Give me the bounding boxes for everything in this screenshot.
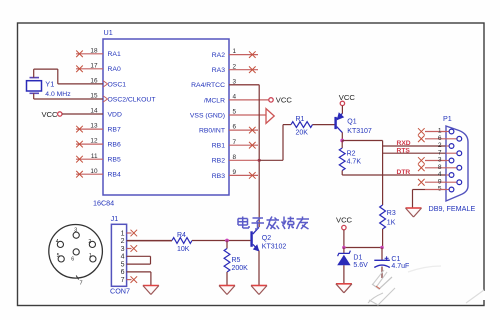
svg-text:RB3: RB3 bbox=[212, 173, 225, 180]
U1 pin 8 RB2 bbox=[212, 154, 259, 165]
svg-text:6: 6 bbox=[71, 256, 74, 262]
P1 part label DB9 FEMALE bbox=[429, 204, 476, 213]
junction D1 node bbox=[342, 246, 346, 250]
svg-text:18: 18 bbox=[90, 47, 98, 54]
junction C1 node bbox=[380, 246, 384, 250]
J1 pin 4 bbox=[121, 254, 125, 261]
connector P1 DB9 body bbox=[446, 126, 468, 201]
Y1 value 4.0 MHz bbox=[45, 91, 71, 98]
ground under D1 bbox=[336, 284, 352, 293]
D1 reference label bbox=[353, 255, 362, 262]
svg-text:17: 17 bbox=[90, 62, 98, 69]
svg-text:10K: 10K bbox=[177, 246, 190, 253]
svg-text:RB7: RB7 bbox=[108, 127, 121, 134]
DIN pin 6 bbox=[71, 249, 79, 263]
P1 pin 9 bbox=[418, 178, 462, 185]
svg-text:7: 7 bbox=[121, 277, 125, 284]
P1 pin 2 bbox=[438, 142, 454, 149]
svg-text:U1: U1 bbox=[104, 28, 113, 37]
resistor R2 bbox=[339, 141, 345, 176]
svg-text:1: 1 bbox=[438, 128, 442, 135]
svg-text:11: 11 bbox=[91, 153, 98, 160]
wire VCC to VDD pin 14 bbox=[62, 113, 103, 115]
P1 reference label bbox=[443, 114, 452, 123]
svg-text:16C84: 16C84 bbox=[93, 199, 114, 208]
svg-text:3: 3 bbox=[438, 157, 442, 164]
svg-text:CON7: CON7 bbox=[110, 287, 130, 296]
R4 value 10K bbox=[177, 246, 190, 253]
svg-text:RA4/RTCC: RA4/RTCC bbox=[191, 82, 225, 89]
resistor R3 bbox=[380, 205, 386, 248]
DIN pin 2 bbox=[88, 239, 95, 248]
R3 value 1K bbox=[387, 220, 396, 227]
junction R5 node bbox=[225, 239, 229, 243]
U1 pin 13 RB7 bbox=[76, 123, 121, 134]
R1 reference label bbox=[296, 116, 305, 123]
U1 pin 1 RA2 bbox=[212, 48, 258, 59]
diode D1 zener bbox=[337, 248, 350, 284]
svg-text:R3: R3 bbox=[387, 210, 396, 217]
wire Q2 emitter to ground bbox=[258, 251, 260, 285]
D1 value 5.6V bbox=[353, 262, 368, 269]
Q1 part KT3107 bbox=[347, 128, 372, 135]
svg-text:3: 3 bbox=[121, 246, 125, 253]
wire VCC to Q1 emitter bbox=[341, 106, 343, 114]
R2 reference label bbox=[347, 150, 356, 157]
svg-text:8: 8 bbox=[233, 154, 237, 161]
pen scribble mark bbox=[368, 266, 486, 305]
J1 pin 3 bbox=[121, 245, 138, 253]
svg-text:VCC: VCC bbox=[336, 215, 353, 224]
svg-text:RTS: RTS bbox=[397, 147, 411, 154]
svg-text:4: 4 bbox=[438, 171, 442, 178]
svg-text:RA2: RA2 bbox=[212, 52, 225, 59]
svg-text:VDD: VDD bbox=[108, 111, 122, 118]
svg-text:1: 1 bbox=[233, 48, 237, 55]
svg-text:2: 2 bbox=[438, 142, 442, 149]
DIN pin 5 bbox=[57, 253, 65, 262]
svg-text:7: 7 bbox=[233, 139, 237, 146]
svg-text:VCC: VCC bbox=[41, 110, 58, 119]
svg-text:4.0 MHz: 4.0 MHz bbox=[45, 91, 71, 98]
J1 reference label bbox=[111, 214, 119, 223]
svg-text:10: 10 bbox=[90, 168, 98, 175]
svg-text:12: 12 bbox=[90, 138, 98, 145]
svg-text:RB6: RB6 bbox=[108, 142, 121, 149]
svg-text:2: 2 bbox=[88, 239, 91, 245]
ground under DB9 pin 5 bbox=[406, 208, 422, 217]
U1 pin 17 RA0 bbox=[76, 62, 121, 73]
P1 pin 7 bbox=[438, 149, 462, 156]
connector J1 body bbox=[111, 224, 126, 286]
svg-text:RA3: RA3 bbox=[212, 67, 225, 74]
junction RB2 node bbox=[258, 159, 261, 162]
svg-text:OSC1: OSC1 bbox=[108, 81, 127, 88]
svg-text:RB0/INT: RB0/INT bbox=[199, 128, 225, 135]
svg-text:8: 8 bbox=[438, 164, 442, 171]
svg-text:P1: P1 bbox=[443, 114, 452, 123]
U1 reference label bbox=[104, 28, 113, 37]
svg-text:4: 4 bbox=[121, 254, 125, 261]
wire Y1 bottom to OSC2 bbox=[34, 93, 103, 99]
svg-text:D1: D1 bbox=[353, 255, 362, 262]
wire Q1 collector to node bbox=[341, 132, 343, 140]
DIN pin 1 bbox=[89, 253, 96, 262]
power port VCC at /MCLR bbox=[269, 96, 293, 105]
wire node RA4-RB2 vertical bus bbox=[229, 85, 259, 227]
R5 reference label bbox=[232, 257, 241, 264]
svg-text:9: 9 bbox=[233, 169, 237, 176]
svg-text:7: 7 bbox=[438, 149, 442, 156]
svg-text:9: 9 bbox=[438, 178, 442, 185]
J1 pin 6 bbox=[121, 269, 125, 276]
svg-text:4.7K: 4.7K bbox=[347, 159, 362, 166]
svg-text:R5: R5 bbox=[232, 257, 241, 264]
power port VCC at D1 bbox=[336, 215, 353, 229]
svg-text:1K: 1K bbox=[387, 220, 396, 227]
P1 pin 6 bbox=[418, 135, 462, 142]
resistor R1 bbox=[283, 122, 335, 128]
watermark text bbox=[238, 217, 309, 230]
svg-text:6: 6 bbox=[233, 124, 237, 131]
R5 value 200K bbox=[232, 265, 249, 272]
Q1 reference label bbox=[347, 119, 356, 126]
svg-text:6: 6 bbox=[438, 135, 442, 142]
svg-text:4.7uF: 4.7uF bbox=[391, 263, 409, 270]
U1 pin 10 RB4 bbox=[76, 168, 121, 179]
svg-text:R4: R4 bbox=[177, 232, 186, 239]
P1 pin 4 bbox=[438, 171, 454, 178]
op IC U1 16C84 body bbox=[103, 39, 229, 195]
U1 pin 18 RA1 bbox=[76, 47, 121, 58]
Q2 part KT3102 bbox=[262, 244, 287, 251]
C1 reference label bbox=[391, 256, 400, 263]
net label DTR bbox=[397, 169, 411, 176]
wire RXD to DB9 pin 2 bbox=[383, 145, 446, 147]
svg-text:/MCLR: /MCLR bbox=[204, 97, 225, 104]
junction Q1 collector node bbox=[340, 139, 344, 143]
transistor Q2 body bbox=[250, 227, 259, 251]
wire J1 pin 2 to R4 bbox=[127, 240, 172, 242]
svg-text:J1: J1 bbox=[111, 214, 119, 223]
svg-text:4: 4 bbox=[233, 94, 237, 101]
svg-text:RB2: RB2 bbox=[212, 158, 225, 165]
DIN pin 4 bbox=[56, 239, 64, 248]
J1 pin 5 bbox=[121, 262, 125, 269]
Y1 reference label bbox=[45, 80, 54, 89]
wire VCC to D1 node bbox=[344, 230, 383, 248]
U1 pin 7 RB1 bbox=[212, 139, 258, 150]
P1 pin 1 bbox=[418, 128, 454, 135]
power port arrow at VSS bbox=[266, 109, 274, 124]
svg-text:RB5: RB5 bbox=[108, 157, 121, 164]
svg-text:Q2: Q2 bbox=[262, 235, 271, 242]
svg-text:RB1: RB1 bbox=[212, 143, 225, 150]
svg-text:1: 1 bbox=[121, 230, 125, 237]
svg-text:VCC: VCC bbox=[276, 96, 293, 105]
J1 part CON7 bbox=[110, 287, 130, 296]
U1 pin 4 /MCLR bbox=[204, 94, 269, 105]
svg-text:4: 4 bbox=[56, 239, 59, 245]
svg-text:6: 6 bbox=[121, 269, 125, 276]
svg-text:5: 5 bbox=[57, 253, 60, 259]
svg-text:RXD: RXD bbox=[397, 140, 411, 147]
J1 pin 7 bbox=[121, 276, 138, 284]
DIN pin 3 bbox=[73, 228, 79, 239]
svg-text:RA1: RA1 bbox=[108, 51, 121, 58]
wire Q1 node to RXD/RTS bus bbox=[342, 141, 382, 206]
svg-text:3: 3 bbox=[74, 228, 77, 234]
DIN pin 7 label bbox=[76, 276, 82, 287]
wire DB9 pin 5 to ground bbox=[413, 190, 447, 208]
svg-text:DB9, FEMALE: DB9, FEMALE bbox=[429, 204, 476, 213]
ground under R5 bbox=[219, 286, 235, 295]
P1 pin 8 bbox=[418, 164, 462, 171]
P1 pin 5 bbox=[438, 186, 454, 193]
net label RTS bbox=[397, 147, 411, 154]
P1 pin 3 bbox=[418, 157, 454, 164]
svg-text:KT3102: KT3102 bbox=[262, 244, 287, 251]
resistor R4 bbox=[127, 238, 251, 244]
ground under Q2 bbox=[251, 286, 267, 295]
net label RXD bbox=[397, 140, 411, 147]
R2 value 4.7K bbox=[347, 159, 362, 166]
U1 pin 3 RA4/RTCC bbox=[191, 78, 259, 89]
svg-text:2: 2 bbox=[121, 238, 125, 245]
svg-text:13: 13 bbox=[90, 123, 98, 130]
power port VCC at VDD bbox=[41, 110, 62, 119]
svg-text:KT3107: KT3107 bbox=[347, 128, 372, 135]
svg-text:R2: R2 bbox=[347, 150, 356, 157]
U1 pin 12 RB6 bbox=[76, 138, 121, 149]
U1 pin 2 RA3 bbox=[212, 63, 258, 74]
U1 part value 16C84 bbox=[93, 199, 114, 208]
svg-text:RB4: RB4 bbox=[108, 172, 121, 179]
C1 value 4.7uF bbox=[391, 263, 409, 270]
U1 pin 6 RB0/INT bbox=[199, 124, 258, 135]
svg-text:200K: 200K bbox=[232, 265, 249, 272]
DIN connector face outline bbox=[49, 225, 103, 279]
svg-text:20K: 20K bbox=[296, 130, 309, 137]
svg-text:Y1: Y1 bbox=[45, 80, 54, 89]
U1 pin 11 RB5 bbox=[76, 153, 121, 164]
wire RTS to DB9 pin 7 bbox=[383, 152, 446, 154]
R1 value 20K bbox=[296, 130, 309, 137]
svg-text:RA0: RA0 bbox=[108, 66, 121, 73]
J1 pin 2 bbox=[121, 238, 125, 245]
transistor Q1 body bbox=[334, 112, 344, 132]
svg-text:VSS (GND): VSS (GND) bbox=[190, 112, 225, 119]
U1 pin 14 VDD bbox=[90, 108, 122, 119]
svg-text:OSC2/CLKOUT: OSC2/CLKOUT bbox=[108, 96, 156, 103]
power port VCC above Q1 bbox=[339, 93, 356, 105]
R3 reference label bbox=[387, 210, 396, 217]
U1 pin 9 RB3 bbox=[212, 169, 258, 180]
U1 pin 15 OSC2/CLKOUT bbox=[90, 93, 155, 104]
wire RB2 branch to R1 bbox=[259, 125, 283, 161]
resistor R5 bbox=[224, 241, 230, 286]
J1 pin 1 bbox=[121, 230, 138, 238]
svg-text:7: 7 bbox=[80, 281, 83, 287]
svg-text:5: 5 bbox=[233, 109, 237, 116]
capacitor C1 bbox=[374, 248, 390, 279]
ground under J1 pin 6 bbox=[143, 286, 159, 295]
svg-text:5.6V: 5.6V bbox=[353, 262, 368, 269]
R4 reference label bbox=[177, 232, 186, 239]
U1 pin 16 OSC1 bbox=[90, 78, 126, 89]
wire J1 pins 4-5 loop bbox=[127, 256, 151, 264]
svg-text:5: 5 bbox=[121, 262, 125, 269]
svg-text:2: 2 bbox=[233, 63, 237, 70]
svg-text:DTR: DTR bbox=[397, 169, 411, 176]
wire Y1 top to OSC1 bbox=[34, 69, 103, 84]
U1 pin 5 VSS (GND) bbox=[190, 109, 266, 120]
wire J1 pin 6 to ground bbox=[127, 272, 151, 285]
crystal Y1 body bbox=[27, 78, 42, 94]
svg-text:1: 1 bbox=[89, 253, 92, 259]
Q2 reference label bbox=[262, 235, 271, 242]
wire DTR from R2 to DB9 pin 4 bbox=[342, 174, 446, 176]
svg-text:Q1: Q1 bbox=[347, 119, 356, 126]
svg-text:R1: R1 bbox=[296, 116, 305, 123]
